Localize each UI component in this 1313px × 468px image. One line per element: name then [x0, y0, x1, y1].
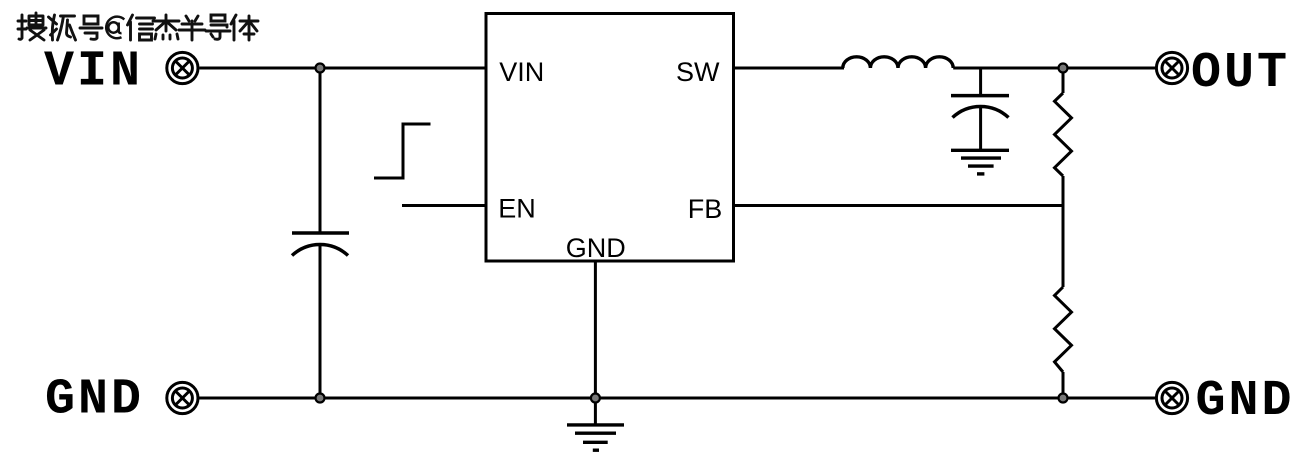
svg-text:GND: GND: [1196, 373, 1295, 430]
svg-text:VIN: VIN: [44, 44, 143, 101]
svg-text:OUT: OUT: [1191, 45, 1290, 102]
svg-text:VIN: VIN: [499, 57, 544, 87]
svg-text:GND: GND: [566, 233, 626, 263]
svg-text:FB: FB: [688, 194, 723, 224]
svg-text:SW: SW: [676, 57, 720, 87]
svg-text:GND: GND: [45, 372, 144, 429]
svg-text:EN: EN: [498, 194, 536, 224]
